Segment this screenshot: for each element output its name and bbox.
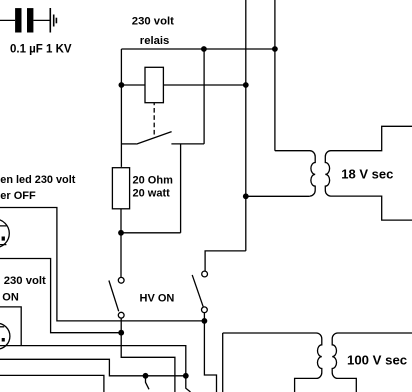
svg-text:18 V sec: 18 V sec [341, 167, 393, 182]
svg-text:20 Ohm: 20 Ohm [133, 175, 174, 187]
svg-text:er OFF: er OFF [0, 190, 36, 202]
svg-text:relais: relais [140, 35, 170, 47]
svg-text:d 230 volt: d 230 volt [0, 275, 46, 287]
svg-text:0.1 µF 1 KV: 0.1 µF 1 KV [10, 44, 72, 56]
svg-text:20 watt: 20 watt [133, 187, 171, 199]
svg-text:ON: ON [2, 292, 19, 304]
svg-text:HV ON: HV ON [140, 292, 175, 304]
svg-text:230 volt: 230 volt [132, 15, 174, 27]
svg-text:en led 230 volt: en led 230 volt [0, 174, 75, 186]
svg-text:100 V sec: 100 V sec [347, 353, 407, 368]
